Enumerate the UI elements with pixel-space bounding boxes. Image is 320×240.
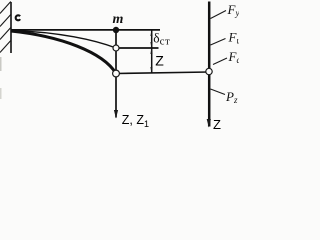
wall hatch 2 [0, 15, 11, 27]
wall hatch 4 [0, 41, 11, 53]
node: displaced position [113, 70, 120, 77]
label c (beam stiffness) [16, 15, 21, 20]
arrow z,z1 head [114, 110, 118, 119]
force diagram axis (right vertical line) [208, 2, 211, 127]
extension wire at static level [116, 47, 159, 49]
wall hatch 1 [0, 2, 11, 14]
vertical wire through mass positions [115, 30, 117, 118]
wall hatch 3 [0, 28, 11, 40]
leader F_c [213, 58, 227, 65]
arrow z head (right) [207, 119, 211, 128]
static deflection curve (thin) [11, 30, 116, 48]
svg-text:m: m [113, 12, 124, 27]
undeflected beam axis (wire) [11, 29, 161, 31]
svg-text:Z: Z [155, 52, 164, 68]
beam deflected position (thick curve) [11, 31, 116, 74]
scan artifact left edge [0, 57, 2, 71]
dimension line (delta_st and z) [151, 30, 153, 73]
leader F_u [211, 39, 226, 46]
leader F_y [211, 11, 227, 19]
mass m (filled node) [113, 27, 119, 33]
svg-text:Z: Z [213, 117, 221, 132]
leader P_z [211, 89, 226, 95]
node: static equilibrium position [113, 45, 119, 51]
wire from displaced mass to force diagram [116, 72, 209, 74]
wall (fixed support) [10, 2, 12, 53]
node on force axis [206, 68, 212, 74]
